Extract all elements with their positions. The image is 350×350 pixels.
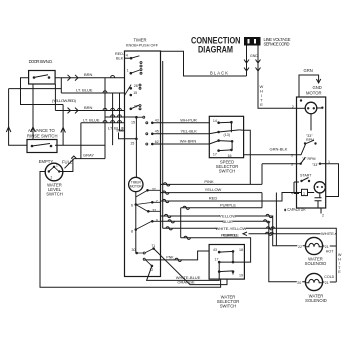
- svg-text:1: 1: [303, 192, 305, 196]
- svg-text:71: 71: [151, 244, 155, 248]
- svg-text:ADVANCE TO: ADVANCE TO: [28, 128, 56, 133]
- svg-text:9: 9: [156, 219, 158, 223]
- svg-text:GND: GND: [313, 85, 322, 90]
- svg-text:6: 6: [131, 204, 133, 208]
- svg-text:4: 4: [126, 54, 128, 58]
- svg-text:E: E: [260, 102, 263, 107]
- svg-text:21: 21: [325, 281, 329, 285]
- svg-text:RED-: RED-: [115, 52, 125, 56]
- svg-text:GND: GND: [250, 54, 258, 58]
- svg-text:DIAGRAM: DIAGRAM: [198, 45, 233, 55]
- svg-text:32: 32: [152, 209, 156, 213]
- svg-text:TIMER: TIMER: [133, 38, 146, 43]
- svg-text:LT. BLUE: LT. BLUE: [83, 117, 100, 122]
- svg-text:RINSE SWITCH: RINSE SWITCH: [27, 134, 57, 139]
- svg-text:62: 62: [155, 140, 159, 144]
- svg-text:GRN: GRN: [304, 68, 313, 73]
- svg-text:SOLENOID: SOLENOID: [305, 298, 327, 303]
- svg-text:27: 27: [134, 105, 138, 109]
- svg-text:30: 30: [132, 248, 136, 252]
- svg-text:BRN: BRN: [84, 72, 93, 77]
- svg-text:43: 43: [155, 119, 159, 123]
- svg-text:MOTOR: MOTOR: [130, 184, 143, 188]
- svg-text:FULL: FULL: [62, 160, 73, 165]
- svg-text:5: 5: [291, 154, 293, 158]
- svg-text:GRAY: GRAY: [83, 152, 94, 157]
- svg-text:GRN-BLK: GRN-BLK: [270, 147, 288, 152]
- svg-text:17: 17: [215, 257, 219, 261]
- svg-text:8: 8: [131, 230, 133, 234]
- svg-text:YELLOW: YELLOW: [219, 214, 236, 219]
- svg-text:BLK: BLK: [116, 57, 124, 61]
- svg-text:PURPLE: PURPLE: [220, 202, 236, 207]
- svg-text:"33": "33": [312, 163, 319, 167]
- svg-text:15: 15: [133, 91, 137, 95]
- svg-text:WHITE-YELLOW: WHITE-YELLOW: [216, 226, 247, 231]
- svg-text:WHITE-: WHITE-: [321, 231, 336, 236]
- svg-text:45: 45: [155, 130, 159, 134]
- svg-text:BLACK: BLACK: [210, 71, 228, 76]
- svg-text:SWITCH: SWITCH: [219, 168, 236, 173]
- svg-text:(13): (13): [224, 133, 230, 137]
- svg-text:PURPLE: PURPLE: [223, 233, 239, 238]
- svg-text:WH-BRN: WH-BRN: [180, 139, 197, 144]
- svg-text:MOTOR: MOTOR: [306, 91, 322, 96]
- svg-text:2: 2: [292, 105, 294, 109]
- svg-text:COLD: COLD: [324, 275, 334, 279]
- svg-text:SWITCH: SWITCH: [220, 304, 237, 309]
- svg-text:20: 20: [297, 281, 301, 285]
- svg-text:32: 32: [152, 188, 156, 192]
- svg-text:SWITCH: SWITCH: [46, 192, 63, 197]
- svg-text:21: 21: [325, 245, 329, 249]
- svg-text:EMPTY: EMPTY: [39, 159, 54, 164]
- svg-text:HOT: HOT: [326, 250, 334, 254]
- svg-text:DOOR SW N.O.: DOOR SW N.O.: [29, 59, 53, 64]
- svg-text:◆ CAPACITOR: ◆ CAPACITOR: [284, 207, 306, 212]
- svg-text:BLUE: BLUE: [222, 219, 233, 224]
- svg-text:BRN: BRN: [84, 105, 93, 110]
- svg-text:1: 1: [127, 69, 129, 73]
- svg-text:22: 22: [298, 245, 302, 249]
- svg-text:PNK: PNK: [166, 256, 174, 260]
- svg-text:LT. BLUE: LT. BLUE: [76, 88, 93, 93]
- svg-text:2: 2: [322, 214, 324, 218]
- svg-text:PINK: PINK: [204, 179, 214, 184]
- svg-text:17: 17: [213, 153, 217, 157]
- svg-text:"4" RPM: "4" RPM: [302, 157, 316, 161]
- svg-text:ORANGE: ORANGE: [177, 280, 195, 285]
- svg-text:KNOB+PUSH OFF: KNOB+PUSH OFF: [126, 44, 159, 48]
- svg-text:15: 15: [130, 142, 134, 146]
- svg-text:SOLENOID: SOLENOID: [305, 261, 327, 266]
- svg-text:YEL-BLK: YEL-BLK: [180, 128, 197, 133]
- svg-text:START: START: [300, 174, 312, 178]
- svg-text:43: 43: [213, 248, 217, 252]
- svg-text:RPM: RPM: [306, 138, 314, 142]
- svg-text:WH-PUR: WH-PUR: [180, 117, 197, 122]
- svg-text:E: E: [338, 270, 341, 274]
- svg-text:19: 19: [239, 274, 243, 278]
- svg-text:16: 16: [228, 154, 232, 158]
- svg-text:SERVICE CORD: SERVICE CORD: [264, 42, 290, 47]
- svg-text:(YELLOW-RED): (YELLOW-RED): [52, 98, 77, 103]
- svg-text:28: 28: [134, 84, 138, 88]
- svg-text:3: 3: [291, 163, 293, 167]
- svg-text:2: 2: [51, 176, 53, 180]
- svg-text:15: 15: [131, 121, 135, 125]
- svg-text:18: 18: [239, 248, 243, 252]
- svg-text:1: 1: [56, 164, 58, 168]
- svg-text:7: 7: [156, 200, 158, 204]
- svg-text:14: 14: [213, 119, 217, 123]
- svg-text:YELLOW: YELLOW: [205, 187, 222, 192]
- svg-text:RED: RED: [209, 196, 218, 201]
- svg-text:BLK: BLK: [117, 129, 124, 133]
